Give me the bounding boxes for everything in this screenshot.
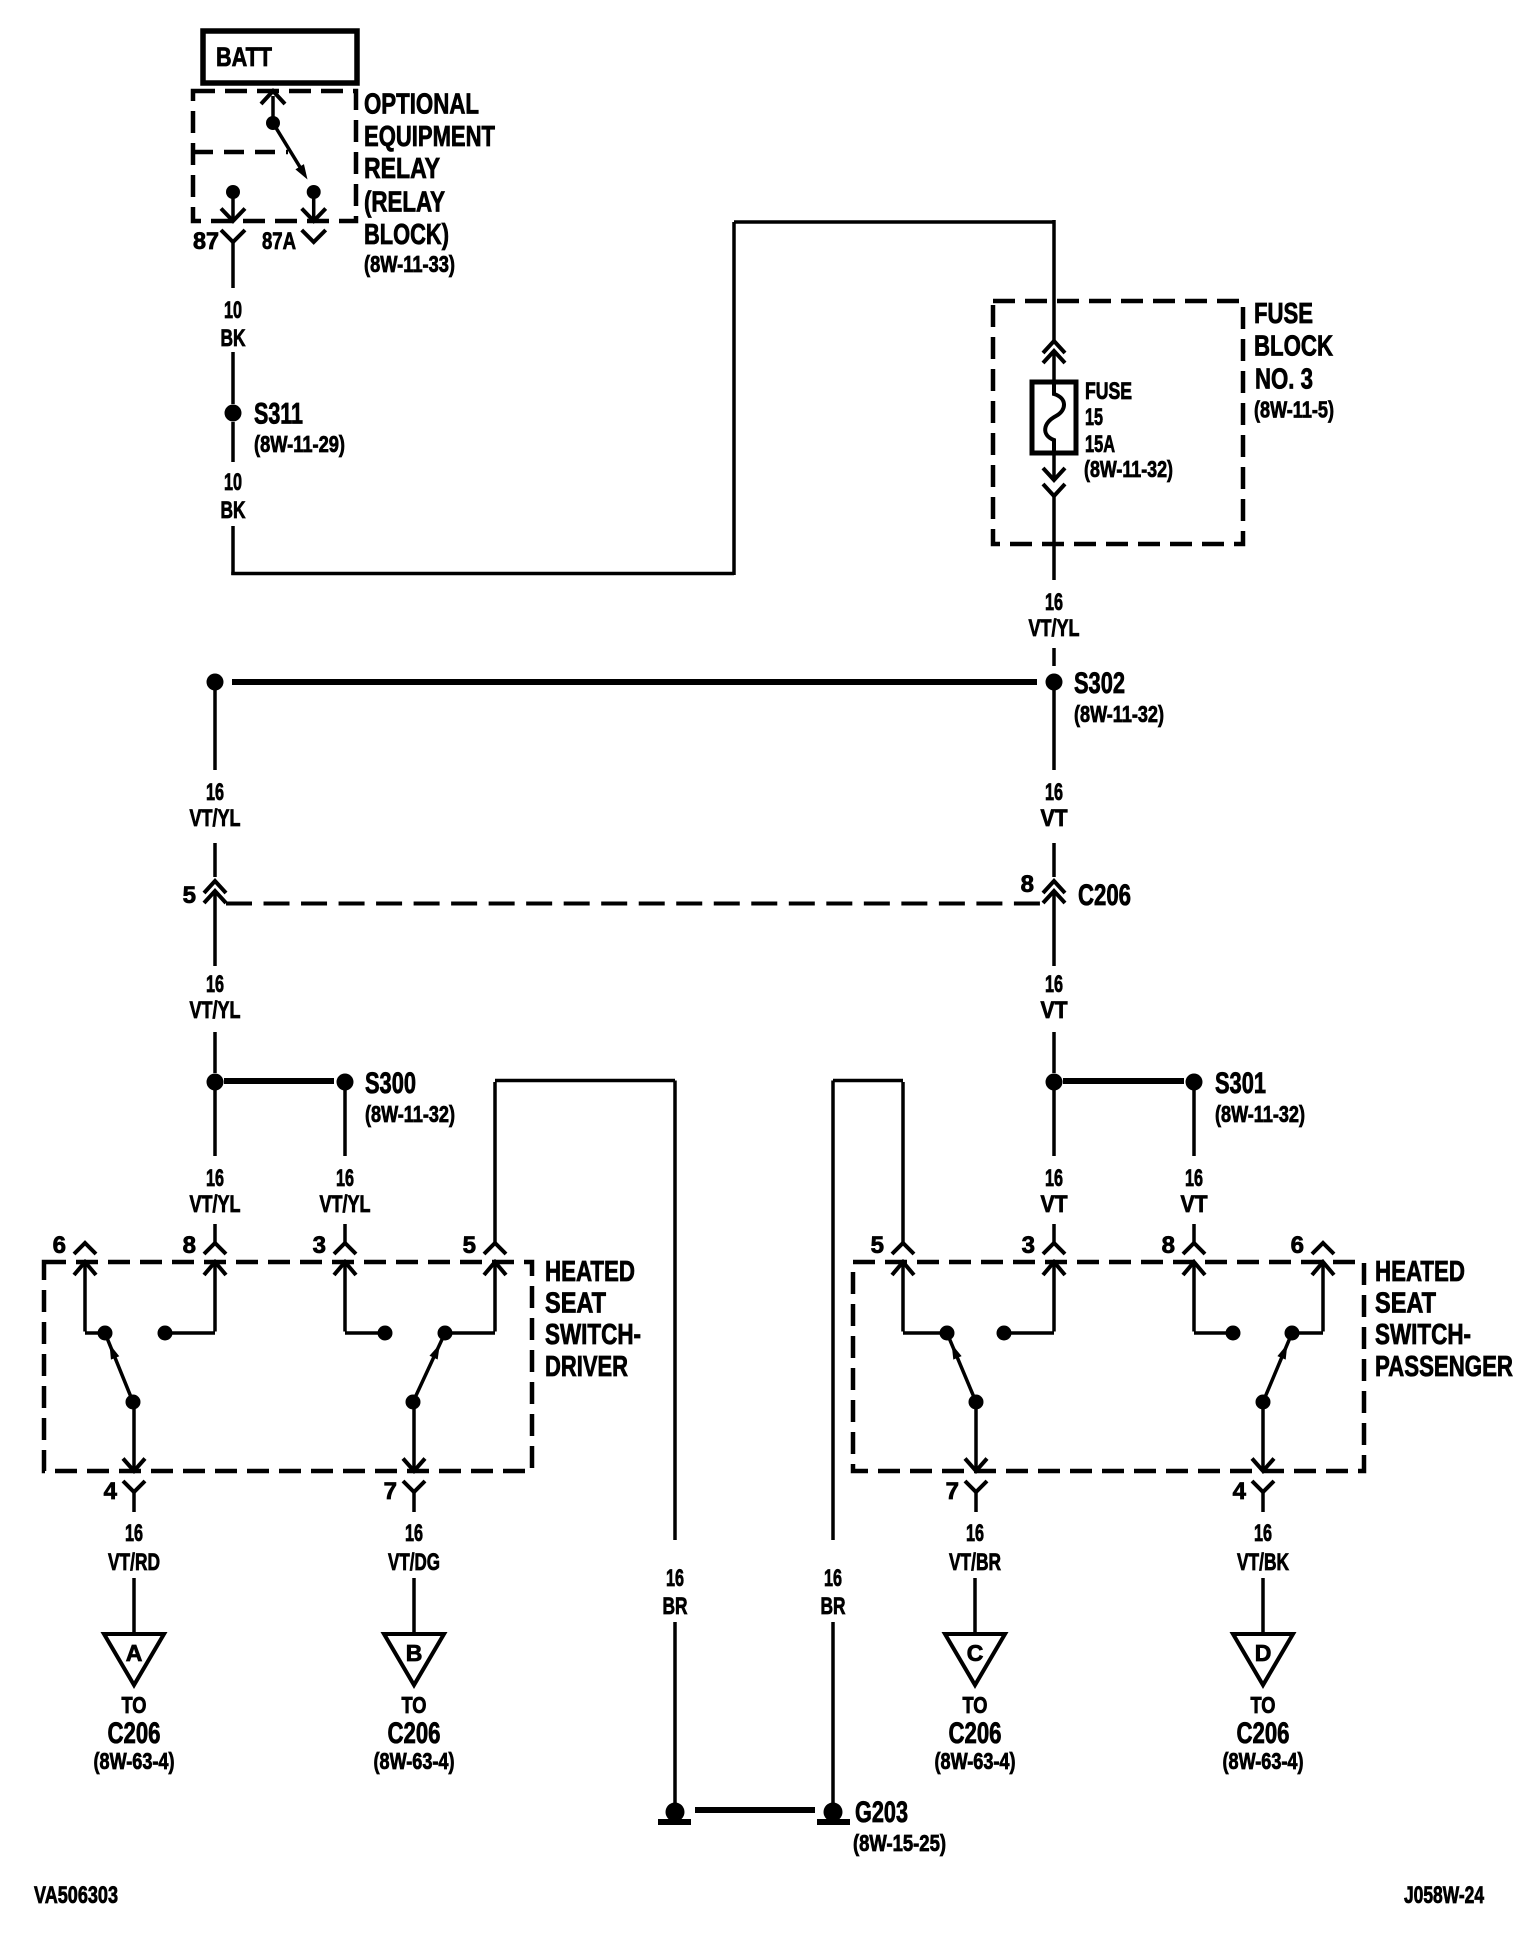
svg-text:8: 8 — [1021, 871, 1034, 898]
svg-text:B: B — [406, 1640, 423, 1666]
svg-text:TO: TO — [402, 1692, 427, 1718]
svg-text:G203: G203 — [855, 1796, 908, 1829]
svg-text:16: 16 — [966, 1520, 984, 1547]
svg-text:16: 16 — [206, 779, 224, 806]
svg-text:(8W-15-25): (8W-15-25) — [853, 1830, 946, 1856]
svg-text:(8W-11-29): (8W-11-29) — [254, 431, 345, 457]
svg-text:16: 16 — [824, 1565, 842, 1592]
svg-text:HEATED: HEATED — [1375, 1256, 1465, 1288]
svg-text:5: 5 — [463, 1232, 476, 1259]
svg-text:16: 16 — [1045, 779, 1063, 806]
svg-text:S311: S311 — [254, 398, 303, 431]
svg-text:4: 4 — [104, 1478, 118, 1505]
svg-text:16: 16 — [336, 1165, 354, 1192]
svg-text:8: 8 — [1162, 1232, 1175, 1259]
svg-text:A: A — [126, 1640, 143, 1666]
svg-text:VT/YL: VT/YL — [1029, 615, 1080, 642]
svg-text:(8W-11-32): (8W-11-32) — [365, 1101, 455, 1127]
svg-text:VT/YL: VT/YL — [190, 1191, 241, 1218]
svg-text:C206: C206 — [949, 1717, 1002, 1750]
svg-text:VT/DG: VT/DG — [388, 1549, 440, 1576]
svg-text:16: 16 — [666, 1565, 684, 1592]
svg-text:VT: VT — [1041, 1191, 1068, 1218]
svg-text:16: 16 — [1254, 1520, 1272, 1547]
svg-text:15: 15 — [1085, 404, 1103, 431]
svg-text:C206: C206 — [1237, 1717, 1290, 1750]
svg-text:16: 16 — [1045, 971, 1063, 998]
svg-text:BLOCK: BLOCK — [1254, 331, 1333, 363]
svg-text:RELAY: RELAY — [364, 153, 440, 185]
svg-text:SWITCH-: SWITCH- — [1375, 1319, 1471, 1351]
svg-text:BK: BK — [221, 497, 246, 524]
svg-text:VT/RD: VT/RD — [108, 1549, 160, 1576]
svg-text:D: D — [1255, 1640, 1272, 1666]
svg-text:(8W-11-33): (8W-11-33) — [364, 251, 455, 277]
svg-text:(8W-63-4): (8W-63-4) — [94, 1748, 175, 1774]
svg-text:SEAT: SEAT — [1375, 1288, 1436, 1320]
svg-text:FUSE: FUSE — [1085, 378, 1132, 405]
svg-text:HEATED: HEATED — [545, 1256, 635, 1288]
svg-text:S301: S301 — [1215, 1067, 1266, 1100]
svg-text:BLOCK): BLOCK) — [364, 219, 449, 251]
svg-text:PASSENGER: PASSENGER — [1375, 1351, 1513, 1383]
svg-text:15A: 15A — [1085, 431, 1115, 458]
svg-text:(8W-63-4): (8W-63-4) — [374, 1748, 455, 1774]
svg-text:16: 16 — [125, 1520, 143, 1547]
svg-text:(8W-63-4): (8W-63-4) — [1223, 1748, 1304, 1774]
svg-text:(8W-11-32): (8W-11-32) — [1084, 456, 1173, 482]
svg-text:BR: BR — [663, 1593, 688, 1620]
svg-text:(8W-11-32): (8W-11-32) — [1215, 1101, 1305, 1127]
svg-text:S300: S300 — [365, 1067, 416, 1100]
svg-text:VA506303: VA506303 — [34, 1882, 118, 1909]
svg-text:8: 8 — [183, 1232, 196, 1259]
svg-text:3: 3 — [313, 1232, 326, 1259]
svg-text:10: 10 — [224, 469, 242, 496]
svg-text:16: 16 — [206, 1165, 224, 1192]
svg-text:6: 6 — [1291, 1232, 1304, 1259]
svg-text:7: 7 — [384, 1478, 397, 1505]
svg-text:VT/BR: VT/BR — [949, 1549, 1001, 1576]
svg-text:DRIVER: DRIVER — [545, 1351, 628, 1383]
svg-text:BK: BK — [221, 325, 246, 352]
svg-text:3: 3 — [1022, 1232, 1035, 1259]
svg-text:VT: VT — [1041, 805, 1068, 832]
svg-text:(RELAY: (RELAY — [364, 187, 445, 219]
svg-text:FUSE: FUSE — [1254, 298, 1313, 330]
svg-text:S302: S302 — [1074, 667, 1125, 700]
svg-text:VT: VT — [1041, 997, 1068, 1024]
svg-text:VT/BK: VT/BK — [1237, 1549, 1289, 1576]
svg-text:5: 5 — [871, 1232, 884, 1259]
svg-text:16: 16 — [1185, 1165, 1203, 1192]
svg-text:J058W-24: J058W-24 — [1404, 1882, 1484, 1909]
svg-text:16: 16 — [1045, 589, 1063, 616]
svg-text:VT/YL: VT/YL — [190, 997, 241, 1024]
svg-text:OPTIONAL: OPTIONAL — [364, 89, 479, 121]
svg-text:7: 7 — [946, 1478, 959, 1505]
svg-text:NO. 3: NO. 3 — [1255, 364, 1313, 396]
svg-text:C206: C206 — [388, 1717, 441, 1750]
svg-text:C: C — [967, 1640, 984, 1666]
svg-text:5: 5 — [183, 882, 196, 909]
svg-text:VT/YL: VT/YL — [320, 1191, 371, 1218]
svg-text:C206: C206 — [108, 1717, 161, 1750]
svg-text:87: 87 — [193, 228, 219, 255]
svg-text:SWITCH-: SWITCH- — [545, 1319, 641, 1351]
svg-text:TO: TO — [122, 1692, 147, 1718]
svg-text:TO: TO — [963, 1692, 988, 1718]
svg-text:BR: BR — [821, 1593, 846, 1620]
svg-text:SEAT: SEAT — [545, 1288, 606, 1320]
svg-text:16: 16 — [206, 971, 224, 998]
svg-text:16: 16 — [1045, 1165, 1063, 1192]
svg-text:6: 6 — [53, 1232, 66, 1259]
svg-text:4: 4 — [1233, 1478, 1247, 1505]
svg-text:(8W-63-4): (8W-63-4) — [935, 1748, 1016, 1774]
svg-text:C206: C206 — [1078, 879, 1131, 912]
svg-text:(8W-11-32): (8W-11-32) — [1074, 701, 1164, 727]
svg-text:(8W-11-5): (8W-11-5) — [1254, 397, 1334, 423]
svg-text:16: 16 — [405, 1520, 423, 1547]
svg-text:10: 10 — [224, 297, 242, 324]
svg-text:VT: VT — [1181, 1191, 1208, 1218]
svg-text:TO: TO — [1251, 1692, 1276, 1718]
svg-text:VT/YL: VT/YL — [190, 805, 241, 832]
svg-text:87A: 87A — [262, 228, 296, 255]
svg-text:BATT: BATT — [216, 42, 272, 72]
svg-text:EQUIPMENT: EQUIPMENT — [364, 121, 495, 153]
